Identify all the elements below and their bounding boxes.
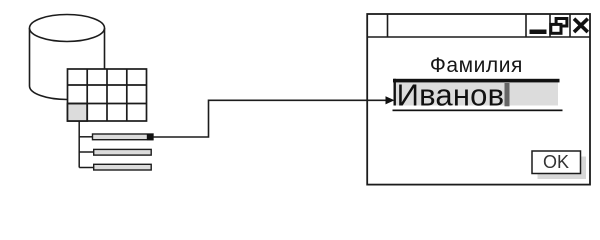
title bar bottom line bbox=[367, 36, 590, 38]
svg-text:Фамилия: Фамилия bbox=[430, 54, 523, 77]
restore glyph bbox=[551, 19, 567, 34]
edit text Иванов bbox=[397, 78, 505, 113]
arrowhead bbox=[386, 96, 395, 104]
record bar 3 bbox=[94, 164, 152, 170]
system menu box divider bbox=[387, 14, 389, 37]
OK button shadow bbox=[538, 157, 587, 180]
field node square bbox=[147, 134, 153, 140]
label Фамилия bbox=[430, 54, 523, 77]
edit field left border bbox=[394, 79, 396, 106]
edit field top border bbox=[393, 79, 560, 83]
window frame bbox=[367, 14, 590, 185]
database cylinder bbox=[30, 15, 105, 100]
svg-text:Иванов: Иванов bbox=[397, 78, 505, 113]
table grid bbox=[68, 69, 147, 121]
OK button bbox=[532, 151, 581, 174]
wire from field square to window bbox=[153, 100, 388, 137]
record bar 2 bbox=[94, 149, 152, 155]
svg-text:OK: OK bbox=[543, 152, 569, 172]
text cursor bbox=[505, 83, 510, 106]
minimize glyph bbox=[530, 30, 547, 35]
edit field gray body bbox=[395, 80, 559, 106]
record bar 1 bbox=[93, 134, 154, 140]
close glyph bbox=[574, 19, 588, 32]
trunk line from table to bars bbox=[79, 121, 94, 168]
button cell dividers bbox=[526, 14, 570, 37]
edit field underline bbox=[393, 110, 563, 112]
